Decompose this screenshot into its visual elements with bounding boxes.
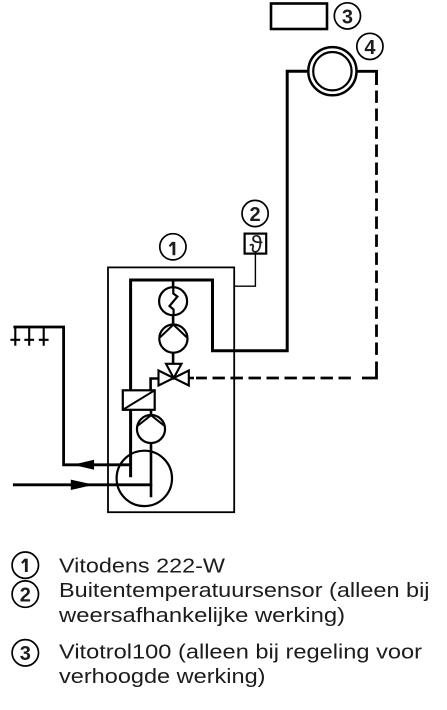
DHW charging pump: [137, 415, 165, 443]
outdoor temperature sensor box: [245, 234, 267, 254]
label 2: [242, 200, 268, 226]
svg-text:Buitentemperatuursensor (allee: Buitentemperatuursensor (alleen bij: [59, 580, 430, 602]
heating circuit pump U4 (double circle): [308, 47, 356, 95]
legend item 1 circle: [12, 552, 38, 578]
wire: heating circuit heavy pipe (boiler internal loop to pump 4): [131, 71, 309, 477]
Vitotrol 100 box: [271, 4, 327, 30]
DHW storage tank: [117, 451, 172, 506]
plate heat exchanger: [123, 390, 155, 410]
wire: valve right stub: [190, 377, 195, 380]
three-way valve: [166, 364, 182, 378]
tap draw-off points: [10, 327, 20, 346]
label 1: [160, 234, 186, 260]
svg-text:weersafhankelijke werking): weersafhankelijke werking): [58, 605, 345, 627]
arrow: cold water flow (right): [71, 480, 94, 490]
label 3: [334, 3, 360, 29]
wire: solid corner top right: [356, 71, 377, 85]
legend item 2 circle: [12, 581, 38, 607]
arrow: hot water flow (left): [73, 460, 94, 470]
svg-text:2: 2: [250, 204, 261, 226]
wire: boiler center column: [172, 280, 175, 365]
wire: DHW pump column into tank: [150, 410, 153, 497]
svg-text:Vitodens 222-W: Vitodens 222-W: [59, 555, 225, 577]
svg-text:verhoogde werking): verhoogde werking): [59, 666, 266, 688]
wire: valve left elbow to heat exchanger: [151, 379, 159, 391]
svg-text:2: 2: [20, 584, 31, 606]
heat generator (circle with flash): [159, 287, 187, 315]
svg-text:ϑ: ϑ: [249, 231, 262, 258]
svg-text:Vitotrol100 (alleen bij regeli: Vitotrol100 (alleen bij regeling voor: [59, 641, 422, 663]
boiler circulation pump: [159, 325, 187, 353]
svg-text:3: 3: [342, 7, 353, 29]
svg-text:4: 4: [364, 37, 376, 59]
label 4: [357, 33, 383, 59]
wire: hot tap water outlet pipe: [13, 327, 131, 465]
wire: outdoor sensor lead: [234, 254, 255, 287]
wire: cold water inlet pipe: [13, 483, 152, 486]
boiler outline: [108, 267, 234, 512]
svg-text:3: 3: [20, 643, 31, 665]
wire: dashed heating circuit return: [375, 91, 378, 357]
legend item 3 circle: [12, 640, 38, 666]
